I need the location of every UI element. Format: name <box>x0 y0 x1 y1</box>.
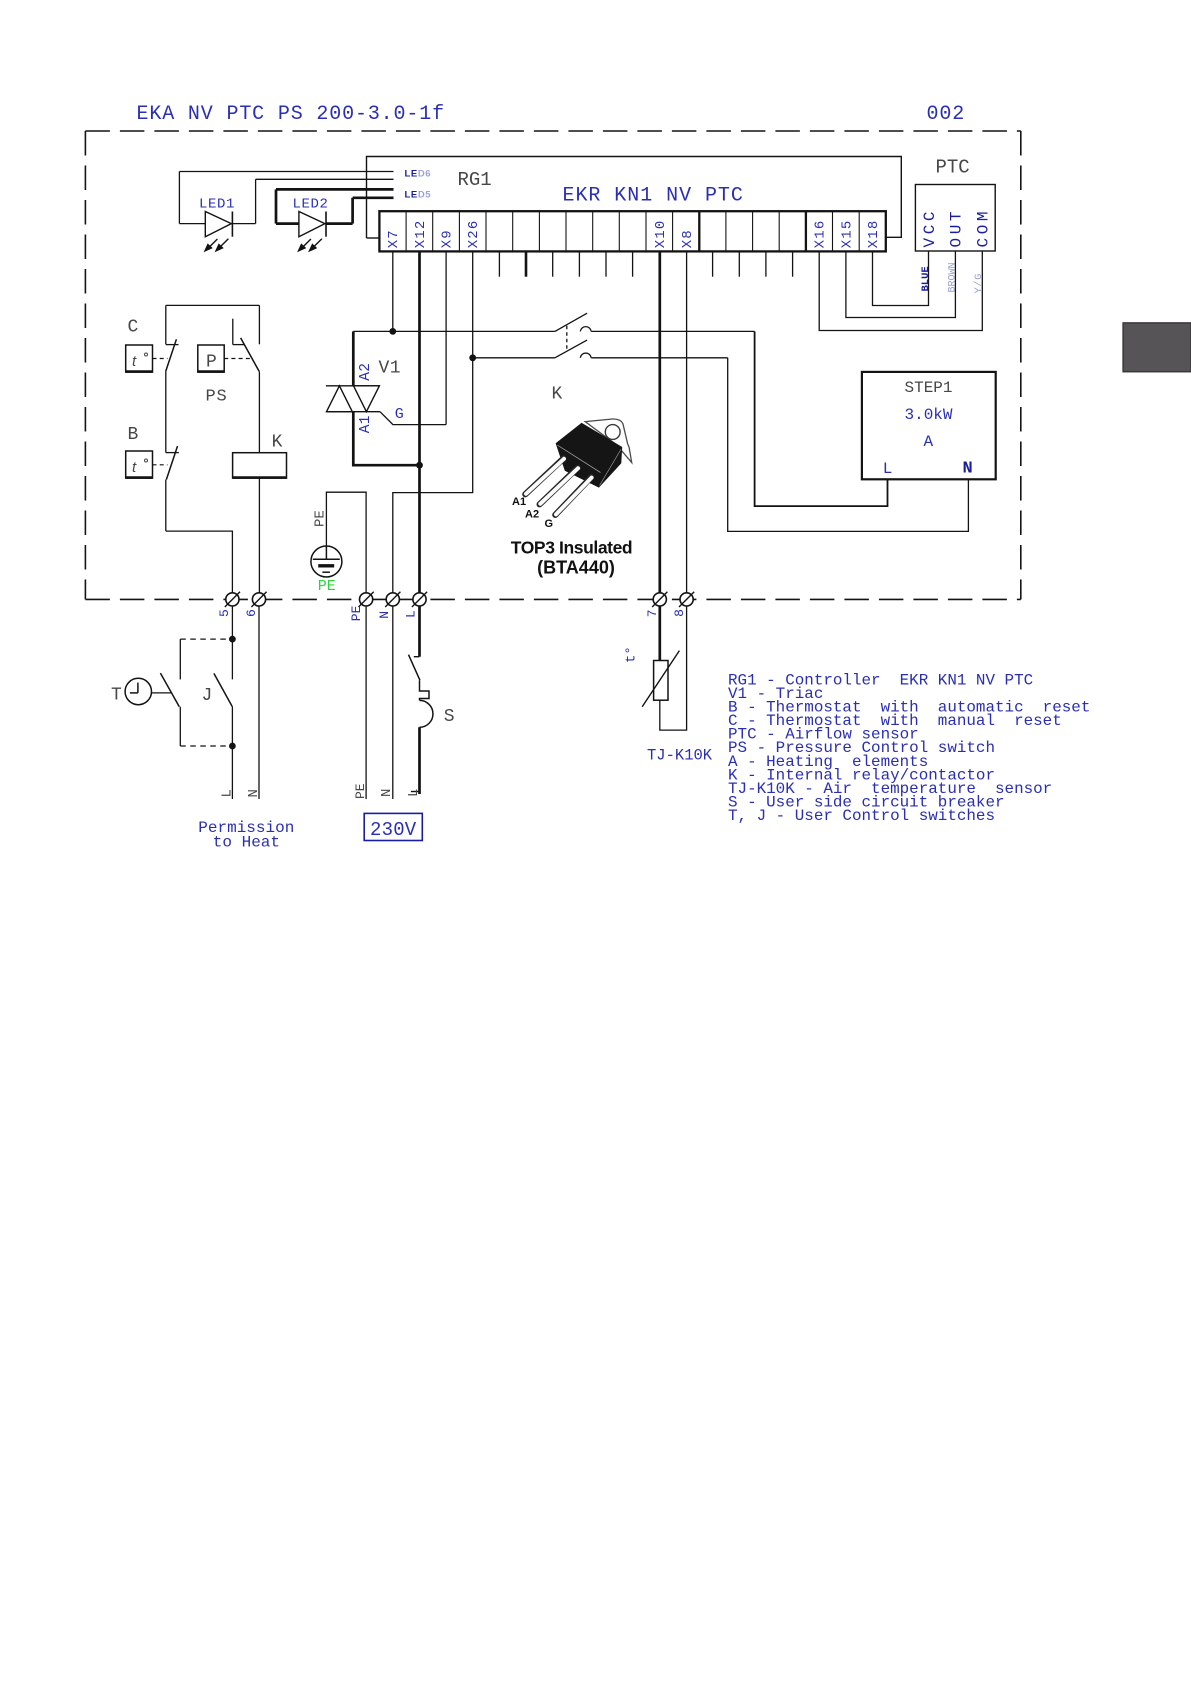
thermostat C sensing box <box>126 345 153 372</box>
wire triac A1 down and to phase junction (thick) <box>353 412 419 466</box>
svg-text:J: J <box>202 686 213 706</box>
svg-text:LED1: LED1 <box>199 197 235 213</box>
switch J on main branch <box>214 673 232 706</box>
svg-text:T, J - User Control switches: T, J - User Control switches <box>728 807 995 825</box>
svg-text:8: 8 <box>672 609 687 617</box>
wire to K lower contact <box>473 357 555 359</box>
terminal strip of RG1 <box>379 211 885 251</box>
dashed actuator B <box>153 464 168 466</box>
svg-text:002: 002 <box>927 103 966 126</box>
terminal N <box>377 592 401 619</box>
svg-text:COM: COM <box>975 208 993 248</box>
svg-text:A1: A1 <box>358 415 374 433</box>
wire top of permission circuit <box>166 304 260 306</box>
terminal 6 <box>244 592 267 617</box>
node junction A1 / L wire <box>416 462 423 469</box>
terminal 5 <box>217 592 240 617</box>
svg-text:STEP1: STEP1 <box>905 379 953 397</box>
LED LED1 <box>179 172 255 251</box>
svg-text:LED5: LED5 <box>405 190 432 201</box>
svg-text:A2: A2 <box>525 509 539 521</box>
svg-text:X10: X10 <box>653 219 669 248</box>
node junction bottom of T/J <box>229 743 236 750</box>
relay contact K upper <box>555 313 755 331</box>
svg-text:LED2: LED2 <box>293 197 329 213</box>
terminal PE <box>349 592 374 621</box>
svg-text:X12: X12 <box>413 219 429 248</box>
svg-text:G: G <box>395 406 404 423</box>
svg-text:230V: 230V <box>370 819 417 841</box>
dashed link lower T/J <box>180 745 228 747</box>
svg-text:L: L <box>404 610 419 618</box>
svg-text:t°: t° <box>624 646 640 663</box>
svg-text:RG1: RG1 <box>458 169 492 191</box>
wire X26 pin down <box>472 251 474 357</box>
wire terminal 6 down <box>258 606 260 799</box>
svg-text:A2: A2 <box>358 363 374 381</box>
svg-text:N: N <box>246 789 262 797</box>
wire X16 to COM <box>819 251 982 331</box>
switch B (auto reset thermostat contact) <box>166 446 179 531</box>
terminal 8 <box>672 592 694 617</box>
LED LED2 <box>276 189 353 250</box>
svg-text:X18: X18 <box>866 219 882 248</box>
svg-text:X15: X15 <box>839 219 855 248</box>
svg-text:PE: PE <box>318 578 336 595</box>
wire triac A2 feed (thick) <box>352 331 355 385</box>
triac package TOP3 illustration <box>525 419 631 515</box>
timer T symbol <box>125 678 171 704</box>
svg-text:X26: X26 <box>466 219 482 248</box>
wire X8 pin down to terminal 8 <box>686 251 688 592</box>
wire N down <box>392 606 394 799</box>
svg-text:5: 5 <box>217 609 232 617</box>
svg-text:X8: X8 <box>680 229 696 248</box>
svg-text:to Heat: to Heat <box>213 834 280 852</box>
svg-text:TJ-K10K: TJ-K10K <box>647 747 713 765</box>
wire B bottom to terminal 5 <box>166 531 233 593</box>
svg-text:EKR KN1 NV PTC: EKR KN1 NV PTC <box>563 185 744 208</box>
airflow sensor PTC box <box>915 185 995 252</box>
wire X7 pin down <box>392 251 394 331</box>
svg-text:A: A <box>924 433 934 451</box>
earth ground symbol <box>311 546 342 577</box>
wire PE from terminal to earth symbol <box>326 492 366 593</box>
svg-text:3.0kW: 3.0kW <box>905 406 953 424</box>
node junction X26 / lower contact <box>469 354 476 361</box>
svg-text:K: K <box>272 433 283 453</box>
node junction X7 / phase <box>389 328 396 335</box>
box 230V <box>364 813 422 840</box>
wire K lower to STEP1 N <box>728 358 969 532</box>
controller RG1 box outline <box>367 157 902 239</box>
gray rectangle right edge <box>1123 323 1191 372</box>
svg-text:C: C <box>128 318 139 338</box>
thermistor diagonal <box>642 651 679 707</box>
wire PE down <box>365 606 367 799</box>
svg-text:K: K <box>552 385 563 405</box>
wire X18 to VCC <box>873 251 929 306</box>
mechanical link K (dashed) <box>566 326 568 350</box>
thermostat B sensing box <box>126 451 153 478</box>
svg-text:VCC: VCC <box>921 208 939 248</box>
svg-text:PE: PE <box>349 605 364 621</box>
svg-text:L: L <box>219 789 235 797</box>
wire K upper to STEP1 L <box>755 331 888 506</box>
wire thermistor loop to terminal 8 <box>660 606 687 730</box>
wire gate G to X9 <box>380 412 446 425</box>
svg-text:LED6: LED6 <box>405 169 432 180</box>
svg-text:X16: X16 <box>813 219 829 248</box>
dashed enclosure border <box>85 131 1020 599</box>
breaker S on L wire <box>409 606 433 794</box>
heater STEP1 box <box>862 372 996 479</box>
svg-text:B: B <box>128 425 139 445</box>
svg-text:X7: X7 <box>386 229 402 248</box>
svg-text:L: L <box>406 789 422 797</box>
node junction top of T/J <box>229 636 236 643</box>
wire LED2 anode line into RG1 (thick) <box>276 188 394 191</box>
wire phase to K upper contact <box>353 330 555 332</box>
svg-text:P: P <box>206 353 217 373</box>
svg-text:PE: PE <box>313 510 329 527</box>
svg-text:N: N <box>963 460 973 479</box>
pressure switch box P <box>198 345 224 373</box>
svg-text:BLUE: BLUE <box>920 266 932 291</box>
svg-text:6: 6 <box>244 609 259 617</box>
svg-text:S: S <box>444 707 455 727</box>
svg-text:TOP3 Insulated: TOP3 Insulated <box>511 538 632 558</box>
svg-text:N: N <box>377 611 392 619</box>
svg-text:OUT: OUT <box>948 208 966 248</box>
wire main branch lower <box>231 707 233 800</box>
svg-text:PE: PE <box>353 783 368 799</box>
svg-text:N: N <box>379 789 395 797</box>
svg-text:A1: A1 <box>512 496 526 508</box>
terminal 7 <box>645 592 668 617</box>
wire X9 pin down to gate <box>445 251 447 424</box>
terminal L <box>404 592 428 618</box>
wire X15 to OUT <box>846 251 956 318</box>
unused pin stubs below strip <box>499 251 792 276</box>
dashed actuator C <box>153 358 168 360</box>
svg-text:(BTA440): (BTA440) <box>537 558 615 578</box>
relay contact K lower <box>555 340 728 358</box>
svg-text:L: L <box>883 460 893 478</box>
svg-text:X9: X9 <box>439 229 455 248</box>
wire LED6 line into RG1 <box>179 171 393 173</box>
wire X10 pin down to terminal 7 <box>658 251 661 592</box>
switch PS (pressure contact) <box>233 305 260 452</box>
wire X26 neutral down-left to terminal N <box>393 358 473 593</box>
dashed link upper T/J <box>180 638 228 640</box>
switch C (manual reset thermostat contact) <box>166 305 179 452</box>
thermistor TJ-K10K body <box>654 661 668 701</box>
relay coil K <box>233 453 287 478</box>
svg-text:7: 7 <box>645 609 660 617</box>
wire terminal 5 down <box>231 606 233 680</box>
legend text <box>728 672 1090 826</box>
wire LED5 line into RG1 (thick) <box>353 196 394 199</box>
switch T branch <box>160 639 180 746</box>
svg-text:PS: PS <box>206 388 228 407</box>
dashed actuator PS <box>224 358 250 360</box>
svg-text:EKA NV PTC PS 200-3.0-1f: EKA NV PTC PS 200-3.0-1f <box>137 103 445 126</box>
svg-text:Y/G: Y/G <box>973 273 985 293</box>
triac V1 symbol <box>326 386 380 412</box>
wire LED1 cathode line into RG1 <box>256 178 394 180</box>
svg-text:PTC: PTC <box>936 157 970 179</box>
svg-text:BROWN: BROWN <box>948 262 959 292</box>
svg-text:V1: V1 <box>379 359 402 379</box>
svg-text:T: T <box>111 686 122 706</box>
wire X12 pin down to terminal L (thick) <box>418 251 421 592</box>
wire K coil to terminal 6 <box>258 478 260 593</box>
svg-text:G: G <box>545 518 554 530</box>
wire terminal 7 down to thermistor (thick) <box>658 606 661 661</box>
thick unused pin stub <box>525 251 528 276</box>
